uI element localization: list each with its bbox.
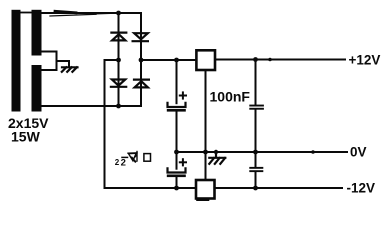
stray node on 0V rail: [311, 150, 315, 154]
transformer T1 primary winding: [12, 10, 21, 112]
junction node at right column mid (pos raw): [139, 58, 144, 63]
junction node C1 top on pos raw: [174, 58, 179, 63]
svg-text:100nF: 100nF: [210, 89, 251, 105]
annotation tiny dash: [122, 156, 128, 158]
junction node C4 bottom on -12V rail: [253, 186, 258, 191]
ground symbol (center tap): [62, 67, 78, 72]
annotation tiny diode glyph: [128, 152, 137, 162]
junction node at AC2 / left column: [116, 104, 121, 109]
junction node C1/C2 on 0V rail: [174, 150, 179, 155]
stray node on +12V rail: [268, 58, 272, 62]
wire center tap bus: [56, 52, 58, 71]
regulator U2 underline mark: [197, 199, 209, 201]
wire +12V rail: [215, 59, 345, 61]
wire center tap lower lead: [42, 69, 57, 71]
wire center tap upper lead: [42, 51, 57, 53]
wire center tap to ground: [57, 61, 70, 67]
svg-text:0V: 0V: [350, 145, 367, 160]
diode D4 (bottom-right, cathode up): [134, 80, 149, 88]
diode D3 (bottom-left, cathode down): [111, 80, 126, 87]
wire scan artifact blob: [55, 11, 76, 13]
regulator U2 (-12V): [196, 180, 215, 199]
junction node ground stub on 0V rail: [214, 150, 218, 154]
junction node at AC1 / left column: [116, 11, 121, 16]
electrolytic capacitor C2 lead bottom: [176, 177, 178, 188]
electrolytic capacitor C2 lead top: [176, 152, 178, 169]
junction node C3/C4 on 0V rail: [253, 150, 258, 155]
transformer T1 secondary lower winding: [32, 65, 42, 112]
wire scan artifact tail: [96, 12, 121, 15]
C1 plus sign: [180, 92, 186, 98]
transformer T1 core link line: [21, 12, 32, 14]
capacitor C3 plates: [249, 105, 264, 110]
capacitor C4 plates: [249, 167, 263, 172]
junction node C2 bottom on -12V rail: [174, 186, 179, 191]
capacitor C3 (100nF upper) lead top: [255, 60, 257, 105]
junction node at left column mid (neg raw): [116, 58, 121, 63]
transformer T1 secondary upper winding: [32, 10, 42, 56]
C2 plus sign: [180, 159, 186, 165]
wire U1 ground pin / middle vertical: [205, 70, 207, 180]
wire 0V rail: [177, 151, 348, 153]
diode D1 (top-left, cathode up): [111, 33, 126, 41]
wire scan artifact (double line): [50, 14, 96, 16]
wire positive raw rail (bridge right mid to regulator U1): [141, 59, 196, 61]
capacitor C4 (100nF lower) lead top: [255, 152, 257, 167]
bridge right column wire: [140, 13, 142, 106]
svg-text:-12V: -12V: [347, 181, 376, 196]
svg-text:2: 2: [121, 158, 126, 169]
electrolytic capacitor C2: [167, 168, 186, 177]
junction node regulator pins on 0V rail: [203, 150, 208, 155]
wire negative raw rail (bridge left mid, down and along bottom): [105, 60, 197, 188]
svg-text:2: 2: [115, 158, 120, 167]
electrolytic capacitor C1 lead top: [176, 60, 178, 103]
wire -12V rail: [215, 187, 343, 189]
junction node C3 top on +12V rail: [253, 57, 258, 62]
annotation tiny square: [144, 154, 151, 162]
electrolytic capacitor C1: [167, 103, 186, 112]
bridge left column wire: [118, 13, 120, 106]
wire AC1 top (secondary top to bridge): [41, 12, 141, 14]
electrolytic capacitor C1 lead bottom: [176, 112, 178, 152]
ground symbol (0V rail): [209, 152, 225, 164]
wire AC2 bottom (secondary bottom to bridge): [42, 105, 142, 107]
capacitor C3 lead bottom: [255, 110, 257, 152]
regulator U1 (+12V): [196, 50, 215, 70]
capacitor C4 lead bottom: [255, 172, 257, 188]
svg-text:15W: 15W: [11, 128, 41, 144]
svg-text:+12V: +12V: [349, 52, 381, 67]
diode D2 (top-right, cathode down): [133, 33, 148, 41]
